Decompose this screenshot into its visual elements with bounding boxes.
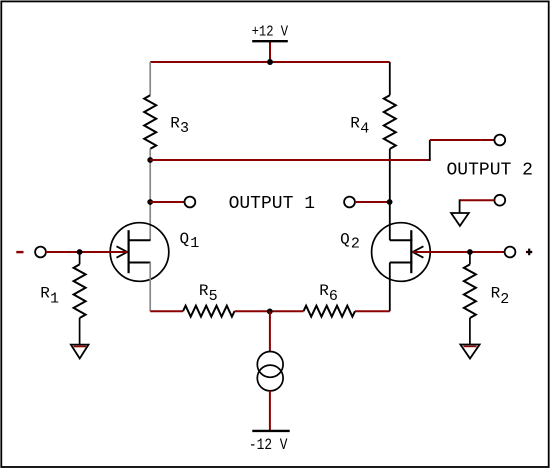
svg-text:1: 1 (50, 291, 59, 308)
wire gate Q1 (46, 251, 127, 253)
resistor R5 (183, 306, 235, 317)
wire output2 top horizontal (430, 139, 495, 141)
resistor R2 (464, 264, 476, 318)
wire tail upper (269, 311, 271, 352)
svg-text:2: 2 (351, 236, 360, 253)
terminal inverting input (35, 247, 46, 258)
wire R1 bottom stub (79, 318, 81, 344)
label plus input (526, 249, 532, 256)
wire right vertical mid (R4 to Q2 drain) (389, 149, 391, 240)
wire to left output1 terminal (150, 201, 184, 203)
terminal OUTPUT 2 (494, 135, 505, 146)
wire between R5 and R6 (235, 310, 304, 312)
svg-text:R: R (40, 284, 50, 302)
resistor R6 (304, 306, 356, 317)
label R1 (40, 284, 59, 307)
wire right vertical upper (rail to R4) (389, 62, 391, 95)
node junction dot tail (267, 309, 273, 315)
wire source rail right (355, 310, 390, 312)
svg-text:4: 4 (360, 120, 369, 137)
svg-text:-12 V: -12 V (249, 436, 288, 454)
wire source rail left (150, 310, 183, 312)
svg-text:R: R (319, 282, 329, 300)
wire output2 horizontal (150, 159, 430, 161)
label Q2 (340, 230, 360, 252)
node junction dot Q2 drain terminal (387, 199, 393, 205)
wire R1 top stub (79, 252, 81, 264)
resistor R4 (384, 95, 396, 149)
label minus input (16, 251, 23, 253)
node junction dot R1 top (77, 249, 83, 255)
label R4 (350, 115, 369, 138)
svg-text:1: 1 (190, 235, 199, 252)
transistor Q2 (372, 223, 431, 282)
node junction dot R3 bottom (147, 157, 153, 163)
label R6 (319, 282, 338, 305)
wire tail lower (269, 391, 271, 431)
label R5 (199, 282, 218, 305)
ground under R2 (460, 345, 479, 359)
svg-text:+12 V: +12 V (252, 25, 289, 41)
svg-text:OUTPUT 1: OUTPUT 1 (229, 194, 315, 214)
ground under R1 (71, 345, 89, 359)
svg-text:6: 6 (329, 288, 338, 305)
svg-text:R: R (491, 284, 501, 302)
ground near OUTPUT 2 (451, 195, 505, 226)
wire left vertical mid (R3 to Q1 drain) (149, 149, 151, 240)
svg-text:5: 5 (209, 288, 218, 305)
wire left vertical upper (rail to R3) (149, 62, 151, 95)
wire R2 bottom stub (469, 318, 471, 344)
wire to right output1 terminal (355, 201, 390, 203)
power -12V bar (252, 430, 289, 432)
wire Q2 source drop (389, 263, 391, 312)
node junction dot Q1 drain terminal (147, 199, 153, 205)
resistor R3 (144, 95, 156, 149)
current source I1 (257, 352, 283, 391)
wire R2 top stub (469, 252, 471, 264)
wire top rail +12V (150, 61, 390, 63)
svg-text:R: R (170, 115, 180, 133)
svg-text:2: 2 (500, 291, 509, 308)
terminal output1 right (344, 197, 355, 208)
wire supply stem (269, 42, 271, 63)
terminal output1 left (185, 197, 196, 208)
svg-text:R: R (350, 115, 360, 133)
svg-text:3: 3 (180, 120, 189, 137)
label R2 (491, 284, 510, 308)
wire gate Q2 (413, 251, 505, 253)
label R3 (170, 115, 189, 138)
svg-text:R: R (199, 282, 209, 300)
svg-text:Q: Q (340, 230, 350, 248)
power +12V bar (252, 40, 288, 42)
node junction dot at +12V rail (267, 59, 273, 65)
node junction dot R2 top (467, 249, 473, 255)
resistor R1 (74, 264, 86, 318)
svg-text:Q: Q (180, 230, 190, 248)
label Q1 (180, 230, 200, 252)
transistor Q1 (110, 223, 169, 282)
wire output2 riser (429, 140, 431, 161)
wire Q1 source drop (149, 263, 151, 312)
terminal non-inverting input (505, 247, 516, 258)
svg-text:OUTPUT 2: OUTPUT 2 (446, 161, 532, 181)
